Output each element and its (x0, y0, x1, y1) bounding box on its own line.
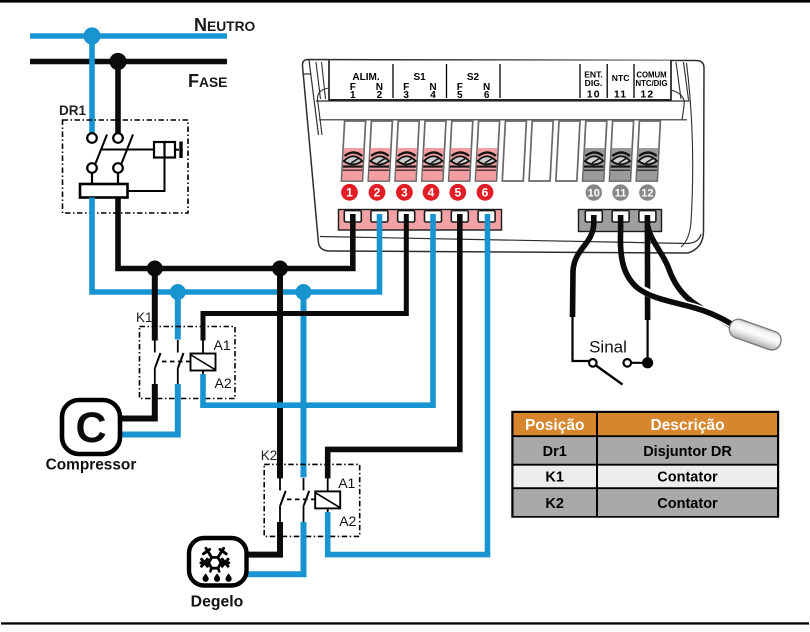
wire terminal 10 to signal switch (573, 215, 594, 361)
wire K2 phase drop (277, 269, 283, 479)
svg-text:Degelo: Degelo (191, 594, 244, 611)
wire K2 contact to defrost phase (246, 522, 280, 555)
svg-text:K1: K1 (136, 310, 153, 325)
svg-text:K2: K2 (545, 496, 564, 512)
compressor symbol (46, 400, 137, 474)
screw terminal 2 (369, 148, 390, 181)
table of positions (513, 412, 779, 517)
pin number badge 10 (586, 184, 602, 200)
svg-text:FASE: FASE (188, 71, 227, 91)
node neutral-K2 junction (296, 284, 312, 300)
wire K2 coil A2 to terminal 6 (328, 214, 488, 555)
node phase junction (109, 53, 126, 70)
pin number badge 6 (477, 184, 494, 201)
svg-text:DIG.: DIG. (585, 78, 603, 88)
svg-text:K2: K2 (261, 448, 278, 463)
svg-text:6: 6 (482, 186, 489, 200)
svg-text:11: 11 (614, 89, 628, 101)
svg-text:A2: A2 (339, 513, 356, 529)
svg-text:Descrição: Descrição (650, 417, 724, 434)
connector block terminals 1-6 (339, 210, 502, 231)
contactor K1 (136, 310, 235, 399)
wire terminal 12 branch to sensor (648, 226, 741, 333)
wire terminal 12 to signal common (645, 215, 651, 358)
node neutral-K1 junction (170, 284, 186, 300)
svg-text:Disjuntor DR: Disjuntor DR (643, 444, 732, 460)
node phase-K2 junction (272, 261, 288, 277)
controller label strip (329, 61, 671, 102)
svg-text:2: 2 (374, 186, 381, 200)
svg-text:5: 5 (454, 186, 461, 200)
wire K2 contact to defrost neutral (246, 522, 304, 574)
wire K1 phase drop (152, 269, 158, 341)
RCD breaker DR1 (59, 103, 188, 213)
svg-text:NTC/DIG: NTC/DIG (635, 79, 667, 88)
wire DR1 neutral output to terminal 2 (92, 198, 380, 293)
svg-text:NTC: NTC (612, 73, 630, 83)
label Neutro (194, 15, 256, 35)
signal switch Sinal (589, 338, 653, 385)
svg-text:K1: K1 (545, 470, 564, 486)
frame bottom border (1, 622, 809, 624)
controller terminal slots (341, 121, 660, 181)
pin number badge 11 (612, 184, 628, 200)
pin number badge 3 (396, 184, 413, 201)
wire terminal 5 to K2 coil A1 (328, 214, 460, 478)
pin number badge 2 (369, 184, 386, 201)
screw terminal 6 (476, 148, 497, 181)
svg-text:A2: A2 (215, 375, 232, 391)
svg-text:12: 12 (640, 89, 654, 101)
screw terminal 3 (396, 148, 417, 181)
svg-text:S2: S2 (467, 72, 480, 83)
svg-text:Posição: Posição (525, 417, 584, 434)
wire terminal 3 to K1 coil A1 (203, 214, 406, 341)
wire terminal 11 to sensor (620, 215, 740, 330)
svg-text:10: 10 (588, 188, 600, 200)
svg-text:A1: A1 (338, 475, 355, 491)
phase bus wire (30, 59, 227, 65)
pin number badge 1 (341, 184, 358, 201)
label Fase (188, 71, 227, 91)
screw terminal 1 (342, 148, 363, 181)
connector block terminals 10-12 (579, 210, 662, 232)
svg-text:2: 2 (377, 90, 383, 101)
neutral bus wire (30, 33, 227, 39)
controller case outline (302, 60, 704, 254)
wire phase to DR1 (115, 62, 121, 134)
svg-text:1: 1 (346, 186, 353, 200)
svg-text:5: 5 (457, 90, 463, 101)
svg-text:4: 4 (428, 186, 435, 200)
screw terminal 12 (637, 148, 658, 181)
svg-text:S1: S1 (413, 72, 426, 83)
svg-text:4: 4 (430, 90, 436, 101)
svg-text:10: 10 (587, 89, 601, 101)
defrost symbol Degelo (189, 538, 247, 611)
screw terminal 11 (610, 148, 631, 181)
svg-text:NEUTRO: NEUTRO (194, 15, 256, 35)
wire DR1 phase output to terminal 1 (118, 198, 353, 269)
svg-text:DR1: DR1 (59, 103, 86, 118)
pin number badge 12 (639, 184, 655, 200)
wire K1 contact to compressor neutral (120, 384, 178, 435)
wire K1 neutral drop (175, 292, 181, 340)
svg-text:11: 11 (615, 188, 627, 200)
wire K2 neutral drop (301, 292, 307, 477)
screw terminal 5 (449, 148, 470, 181)
pin number badge 5 (449, 184, 466, 201)
contactor K2 (261, 448, 360, 536)
svg-text:A1: A1 (214, 337, 231, 353)
svg-text:Sinal: Sinal (589, 338, 627, 357)
pin number badge 4 (423, 184, 440, 201)
svg-text:Dr1: Dr1 (543, 444, 567, 460)
svg-text:1: 1 (350, 90, 356, 101)
svg-text:6: 6 (484, 90, 490, 101)
svg-text:Contator: Contator (657, 470, 718, 486)
node phase-K1 junction (147, 261, 163, 277)
svg-text:C: C (75, 404, 106, 452)
svg-text:3: 3 (401, 186, 408, 200)
svg-text:12: 12 (641, 188, 653, 200)
svg-text:Compressor: Compressor (46, 457, 137, 474)
svg-text:3: 3 (403, 90, 409, 101)
node neutral junction (83, 27, 100, 44)
frame top border (0, 0, 810, 3)
NTC sensor probe (727, 317, 784, 353)
screw terminal 10 (583, 148, 604, 181)
screw terminal 4 (422, 148, 443, 181)
svg-text:Contator: Contator (657, 496, 718, 512)
wire neutral to DR1 (89, 36, 95, 133)
wire K1 coil A2 to terminal 4 (203, 214, 433, 405)
wire K1 contact to compressor phase (120, 384, 155, 419)
